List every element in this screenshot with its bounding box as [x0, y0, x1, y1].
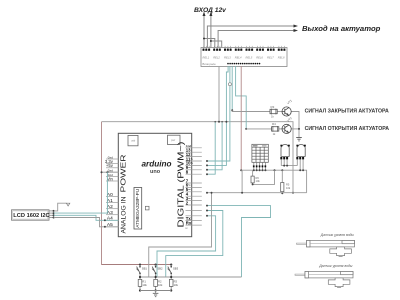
svg-text:LCD 1602 I2C: LCD 1602 I2C: [13, 213, 49, 219]
svg-text:usb: usb: [131, 139, 136, 143]
svg-text:Блок реле: Блок реле: [203, 62, 217, 66]
svg-text:СИГНАЛ ОТКРЫТИЯ АКТУАТОРА: СИГНАЛ ОТКРЫТИЯ АКТУАТОРА: [305, 126, 390, 132]
svg-text:SB1: SB1: [142, 266, 148, 270]
svg-text:A2: A2: [107, 204, 113, 210]
svg-text:Rx: Rx: [186, 220, 192, 225]
svg-text:POWER: POWER: [119, 154, 128, 193]
svg-text:REL4: REL4: [235, 55, 242, 59]
svg-text:arduino: arduino: [142, 160, 172, 169]
svg-text:10k: 10k: [256, 179, 261, 183]
svg-text:REL1: REL1: [203, 55, 210, 59]
svg-text:A1: A1: [107, 198, 113, 204]
svg-text:A4: A4: [107, 216, 113, 222]
svg-text:Датчик уровня воды: Датчик уровня воды: [318, 264, 353, 268]
svg-text:A0: A0: [107, 192, 113, 198]
svg-text:REL2: REL2: [213, 55, 220, 59]
svg-text:REL6: REL6: [256, 55, 263, 59]
svg-text:REL5: REL5: [246, 55, 253, 59]
svg-text:pwr: pwr: [171, 138, 175, 142]
svg-text:DIGITAL (PWM~): DIGITAL (PWM~): [176, 141, 185, 227]
svg-text:R4: R4: [272, 122, 276, 126]
svg-text:SB3: SB3: [173, 266, 179, 270]
svg-text:10k: 10k: [142, 283, 147, 287]
svg-text:Датчик уровня воды: Датчик уровня воды: [320, 233, 355, 237]
svg-text:REL3: REL3: [224, 55, 231, 59]
svg-text:A3: A3: [107, 210, 113, 216]
svg-text:REL8: REL8: [278, 55, 285, 59]
svg-text:10k: 10k: [158, 283, 163, 287]
svg-text:СИГНАЛ ЗАКРЫТИЯ АКТУАТОРА: СИГНАЛ ЗАКРЫТИЯ АКТУАТОРА: [305, 108, 389, 114]
svg-text:A5: A5: [107, 222, 113, 228]
svg-text:10k: 10k: [174, 283, 179, 287]
svg-text:icsp: icsp: [120, 226, 125, 230]
svg-text:+5v: +5v: [106, 163, 114, 168]
svg-text:REL7: REL7: [267, 55, 274, 59]
svg-text:Выход на актуатор: Выход на актуатор: [302, 24, 381, 33]
svg-text:uno: uno: [150, 169, 161, 175]
svg-text:10k: 10k: [286, 186, 291, 190]
svg-text:ATMEGA328P-PU: ATMEGA328P-PU: [135, 189, 140, 228]
svg-text:R3: R3: [271, 105, 275, 109]
svg-text:SB2: SB2: [157, 266, 163, 270]
